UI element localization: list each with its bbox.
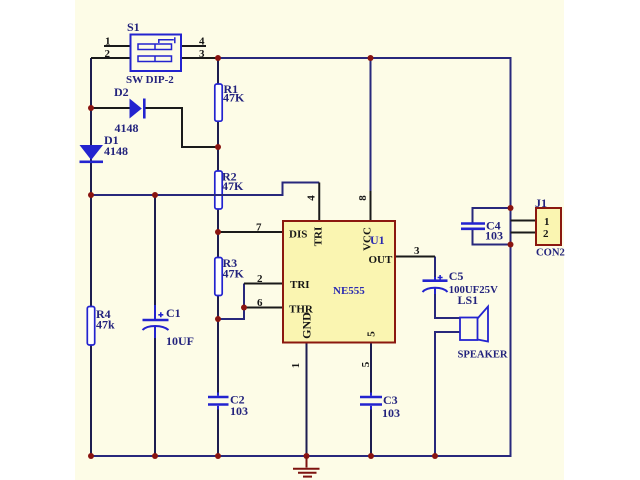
svg-text:SW DIP-2: SW DIP-2	[126, 74, 174, 86]
svg-text:5: 5	[366, 331, 378, 337]
svg-text:DIS: DIS	[289, 229, 307, 241]
svg-text:1: 1	[544, 216, 550, 228]
svg-text:7: 7	[256, 222, 262, 234]
svg-text:2: 2	[257, 273, 263, 285]
svg-text:4: 4	[306, 195, 318, 201]
svg-text:NE555: NE555	[333, 285, 365, 297]
svg-text:6: 6	[257, 297, 263, 309]
svg-text:47K: 47K	[222, 179, 244, 193]
svg-text:4: 4	[199, 36, 205, 48]
svg-text:TRI: TRI	[313, 227, 325, 247]
svg-text:OUT: OUT	[369, 254, 394, 266]
svg-text:TRI: TRI	[290, 279, 310, 291]
svg-text:3: 3	[414, 245, 420, 257]
svg-text:LS1: LS1	[458, 293, 479, 307]
svg-text:103: 103	[485, 229, 503, 243]
svg-text:8: 8	[357, 195, 369, 201]
svg-text:103: 103	[230, 404, 248, 418]
svg-text:D2: D2	[114, 85, 129, 99]
svg-text:103: 103	[382, 406, 400, 420]
svg-text:GND: GND	[300, 312, 314, 339]
svg-text:C3: C3	[383, 393, 398, 407]
svg-text:J1: J1	[535, 196, 547, 210]
svg-text:47k: 47k	[96, 318, 115, 332]
svg-text:5: 5	[360, 361, 372, 367]
svg-text:2: 2	[105, 48, 111, 60]
svg-text:2: 2	[543, 228, 549, 240]
svg-text:C5: C5	[449, 269, 464, 283]
svg-text:4148: 4148	[104, 144, 128, 158]
svg-text:1: 1	[105, 36, 111, 48]
svg-text:CON2: CON2	[536, 248, 565, 259]
svg-text:47K: 47K	[223, 267, 245, 281]
svg-text:3: 3	[199, 48, 205, 60]
svg-text:C1: C1	[166, 306, 181, 320]
svg-text:VCC: VCC	[362, 227, 374, 251]
svg-text:1: 1	[290, 363, 302, 369]
svg-text:10UF: 10UF	[166, 334, 194, 348]
svg-text:SPEAKER: SPEAKER	[458, 350, 508, 361]
svg-text:47K: 47K	[223, 91, 245, 105]
svg-text:S1: S1	[127, 20, 140, 34]
